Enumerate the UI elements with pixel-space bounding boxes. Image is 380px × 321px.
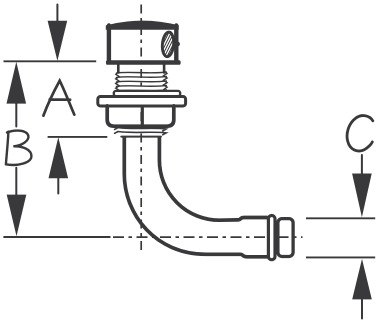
pipe top line under relief [121, 136, 161, 138]
dimension A top extension line [4, 60, 97, 62]
hex nut facet line [141, 107, 144, 126]
side hole oval [154, 29, 181, 59]
dimension A top arrow [48, 5, 68, 61]
dimension B upper arrow [7, 62, 27, 127]
vertical centerline [140, 5, 142, 254]
elbow pipe outer wall [124, 138, 267, 257]
washer plate [114, 91, 180, 96]
dimension C bottom extension line [306, 256, 375, 258]
label A [43, 81, 74, 116]
thread relief under nut [115, 128, 167, 135]
elbow pipe inner wall [159, 138, 267, 220]
label C [347, 116, 373, 151]
horizontal centerline [113, 236, 303, 238]
dimension C top extension line [306, 217, 375, 219]
dimension A bottom arrow [49, 137, 69, 193]
hex cap body [109, 26, 176, 62]
barb collar ring [268, 216, 275, 260]
thread shank edges [117, 64, 120, 73]
label B [6, 131, 32, 165]
hex cap domed top [106, 21, 179, 30]
threads [116, 71, 167, 91]
dimension C top arrow [352, 155, 372, 217]
barb end section [278, 219, 293, 257]
dimension B bottom extension line [3, 236, 110, 238]
hex nut [107, 106, 174, 126]
hex cap bottom bar [106, 60, 181, 65]
flange [98, 97, 186, 107]
dimension B lower arrow [7, 168, 27, 237]
dimension C bottom arrow [352, 259, 372, 319]
dimension A bottom extension line [48, 136, 108, 138]
